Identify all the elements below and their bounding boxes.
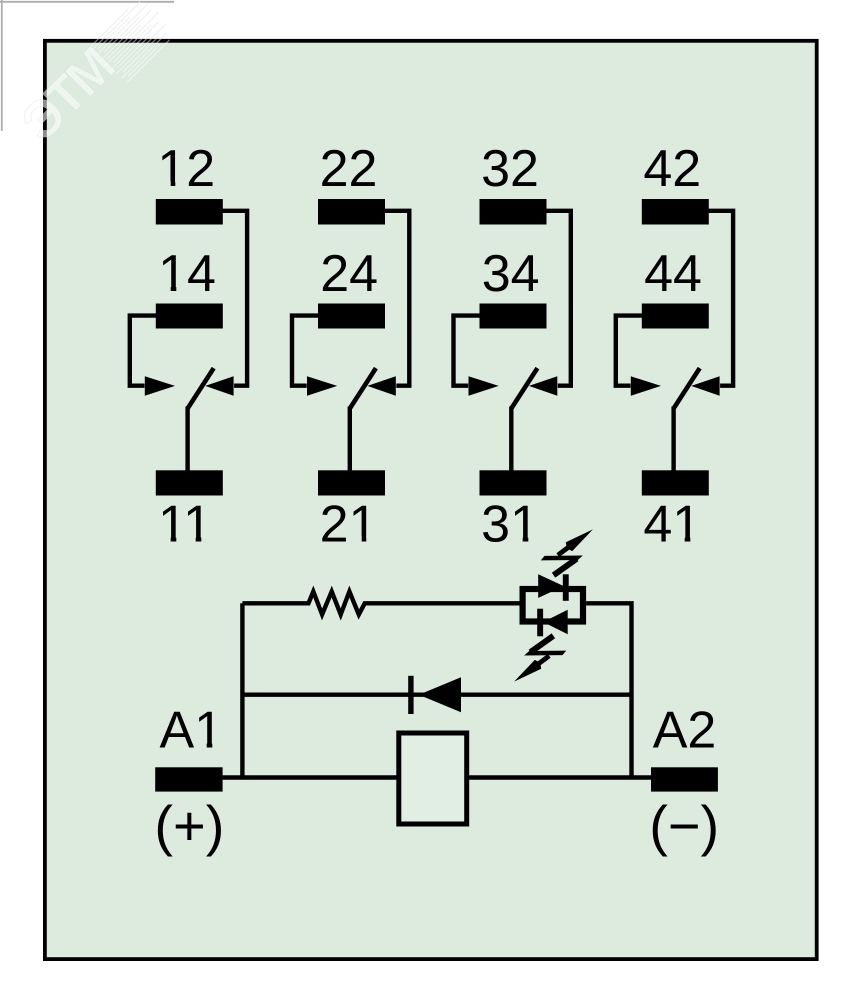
svg-text:(+): (+) [154,794,224,857]
svg-text:22: 22 [320,140,378,198]
svg-text:12: 12 [157,140,215,198]
svg-text:14: 14 [158,245,216,303]
svg-text:11: 11 [158,495,212,553]
svg-text:34: 34 [482,245,540,303]
svg-text:42: 42 [643,140,701,198]
svg-text:A2: A2 [653,702,717,760]
svg-text:32: 32 [481,140,539,198]
svg-text:A1: A1 [159,702,223,760]
svg-text:31: 31 [481,495,539,553]
svg-text:21: 21 [320,495,378,553]
svg-text:24: 24 [320,245,378,303]
svg-text:(−): (−) [649,794,719,857]
svg-text:41: 41 [643,495,701,553]
svg-text:44: 44 [644,245,702,303]
